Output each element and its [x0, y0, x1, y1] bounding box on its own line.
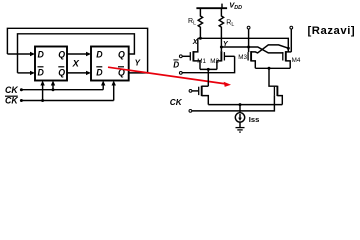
svg-text:Y: Y — [135, 58, 141, 67]
current source arrow — [238, 118, 242, 121]
node labels left — [5, 58, 141, 106]
junction dot CK start — [20, 88, 23, 91]
svg-text:Q: Q — [58, 67, 65, 77]
junction dot CK to FF1 — [52, 88, 55, 91]
current source Iss circle — [235, 113, 244, 122]
transistor M3 — [247, 52, 249, 60]
terminal CKb — [189, 110, 192, 113]
wire M1 M2 source U — [200, 68, 217, 70]
overbar FF1 Db — [38, 66, 44, 68]
wire CK line — [21, 89, 103, 91]
junction dot CKb to FF1 — [41, 99, 44, 102]
svg-text:Q: Q — [118, 49, 125, 59]
wire Iss top — [239, 105, 241, 113]
wire Iss bottom — [239, 122, 241, 127]
dot M3M4 tail — [268, 67, 271, 70]
wire X: FF1 Q to FF2 D — [67, 53, 88, 55]
arrow FF2 Db — [86, 71, 91, 75]
wire FF1 D input arrow — [7, 53, 31, 55]
svg-text:D: D — [96, 49, 103, 59]
wire VDD stub — [221, 4, 223, 9]
wire Y line with cross diagonal — [221, 47, 283, 53]
overbar CKb — [5, 95, 18, 97]
arrow FF1 clock right — [51, 81, 55, 86]
wire CKb to FF2 right clock — [113, 84, 115, 101]
svg-text:X: X — [72, 58, 80, 69]
ground — [236, 127, 245, 129]
svg-text:M3: M3 — [238, 54, 247, 61]
arrow FF1 D — [30, 52, 35, 56]
arrow FF2 D — [86, 52, 91, 56]
transistor M4 — [282, 52, 284, 60]
dot Y junction — [220, 46, 223, 49]
wire inner feedback top — [18, 34, 135, 73]
wire right col to M2 drain — [220, 38, 222, 51]
dot Y to M3 gate — [247, 46, 250, 49]
wire Db input — [182, 56, 235, 72]
svg-text:D: D — [38, 67, 45, 77]
resistor RL right — [219, 8, 223, 38]
arrow FF2 clock right — [112, 81, 116, 86]
dot X junction — [199, 37, 202, 40]
svg-text:[Razavi]: [Razavi] — [308, 25, 356, 37]
wire tail M3M4 to clock FET right — [269, 68, 277, 86]
flipflop FF1 box — [35, 47, 67, 81]
svg-text:D: D — [96, 67, 103, 77]
terminal Db — [179, 72, 182, 75]
input terminals (open circles) — [179, 26, 292, 112]
terminal CK — [189, 90, 192, 93]
svg-text:M4: M4 — [292, 57, 301, 64]
svg-text:CK: CK — [5, 85, 18, 95]
wire CKb line — [21, 100, 113, 102]
wire common source line — [208, 104, 282, 106]
svg-text:CK: CK — [170, 98, 183, 107]
wire FF1 Db input arrow — [18, 72, 32, 74]
dot M1M2 tail — [207, 68, 210, 71]
junction dot CKb start — [20, 99, 23, 102]
svg-text:M2: M2 — [210, 58, 219, 65]
wire tail to clock FET left — [207, 69, 209, 86]
resistor RL left — [198, 8, 202, 38]
overbar FF2 Qb — [118, 66, 124, 68]
FF labels — [38, 49, 126, 77]
output terminal left vertical — [248, 29, 250, 52]
output terminal right vertical — [290, 29, 292, 52]
overbar FF1 Qb — [58, 66, 64, 68]
terminal D — [179, 55, 182, 58]
dot X end M3 drain — [287, 47, 290, 50]
svg-text:Q: Q — [58, 49, 65, 59]
arrow FF1 clock left — [40, 81, 44, 86]
svg-text:Iss: Iss — [249, 115, 260, 124]
transistor clock left — [192, 90, 198, 92]
arrow FF1 Db — [30, 71, 35, 75]
latch labels — [170, 0, 242, 107]
overbar D input — [173, 59, 178, 61]
arrow FF2 clock left — [101, 81, 105, 86]
wire FF1 right clock from CK — [52, 84, 54, 90]
transistor clock right — [273, 87, 275, 95]
terminal out left — [247, 26, 250, 29]
overbar FF2 Db — [96, 66, 102, 68]
svg-text:M1: M1 — [197, 58, 206, 65]
wire CKb input — [192, 95, 275, 111]
wire M3 M4 source line — [255, 67, 290, 69]
flipflop FF2 box — [91, 47, 129, 81]
svg-text:D: D — [173, 60, 179, 69]
terminal out right — [290, 26, 293, 29]
wire FF1 Qb to FF2 Db — [67, 72, 88, 74]
transistor M1 — [182, 55, 190, 57]
red annotation arrow — [108, 67, 231, 87]
svg-text:D: D — [38, 49, 45, 59]
wire FF1 left clock from CKb — [42, 84, 44, 101]
svg-text:CK: CK — [5, 96, 18, 106]
arrowheads FF inputs — [20, 52, 116, 102]
wire outer feedback top — [7, 28, 147, 73]
wire X line — [198, 38, 288, 52]
transistor M2 — [224, 55, 234, 57]
wire VDD rail — [196, 7, 227, 9]
dot Iss tap — [239, 103, 242, 106]
wire CK to FF2 left clock — [102, 84, 104, 90]
junction dots latch — [199, 37, 290, 106]
